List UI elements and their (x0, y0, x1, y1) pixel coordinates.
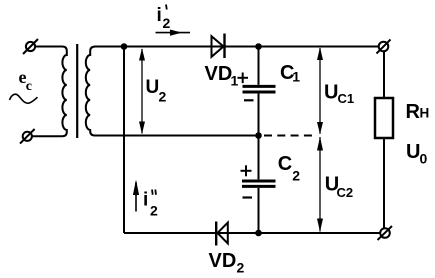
wire right rail lower (383, 138, 385, 228)
label UC2 (325, 174, 353, 201)
capacitor C1 minus mark (244, 99, 254, 101)
svg-text:C2: C2 (337, 185, 354, 200)
wire top rail (95, 46, 380, 48)
svg-text:0: 0 (420, 151, 428, 167)
svg-text:1: 1 (292, 69, 300, 85)
wire bottom rail (124, 232, 380, 234)
input terminal bottom-left (20, 129, 35, 144)
label RH (406, 101, 430, 123)
capacitor C1 lead top (258, 47, 260, 85)
capacitor C1 lead bottom (258, 94, 260, 136)
svg-text:i: i (143, 190, 148, 211)
dimension arrow UC1 (317, 47, 323, 134)
input terminal top-left (23, 39, 38, 54)
source label e_c (19, 67, 33, 94)
svg-text:C1: C1 (338, 91, 355, 106)
label i2'' (143, 190, 158, 219)
resistor RH (375, 98, 393, 138)
svg-text:c: c (26, 79, 32, 94)
current arrow i2' (156, 30, 191, 36)
output terminal top-right (377, 40, 391, 54)
diode VD1 (212, 34, 225, 59)
svg-text:2: 2 (237, 260, 245, 276)
capacitor C2 lead top (258, 136, 260, 180)
capacitor C2 lead bottom (258, 188, 260, 233)
wire right rail upper (383, 51, 385, 98)
transformer core (76, 44, 78, 138)
node D junction dot (255, 230, 262, 237)
transformer T1 primary winding (32, 47, 67, 137)
label VD1 (205, 63, 239, 89)
capacitor C2 (242, 181, 276, 186)
wire left vertical branch (123, 47, 125, 234)
svg-text:1: 1 (231, 73, 239, 89)
label U2 (146, 77, 167, 105)
svg-text:VD: VD (205, 63, 233, 85)
transformer T1 secondary winding (86, 47, 96, 136)
capacitor C1 (243, 86, 276, 92)
current arrow i2'' (133, 180, 139, 212)
svg-text:2: 2 (159, 89, 167, 105)
svg-text:U: U (146, 77, 160, 98)
source sine tilde (10, 94, 38, 103)
capacitor C2 plus mark (241, 165, 252, 176)
dimension arrow UC2 (317, 137, 323, 232)
capacitor C2 minus mark (243, 196, 253, 198)
label U0 (406, 141, 428, 167)
dimension arrow U2 (139, 48, 145, 134)
dashed reference line (264, 135, 313, 137)
node C junction dot (capacitor midpoint) (255, 132, 262, 139)
diode VD2 (216, 222, 228, 246)
svg-text:R: R (406, 101, 421, 123)
label C1 (280, 62, 300, 85)
svg-text:2: 2 (163, 15, 171, 31)
svg-text:2: 2 (150, 203, 158, 219)
node A junction dot (121, 43, 128, 50)
output terminal bottom-right (378, 226, 393, 240)
svg-text:U: U (406, 141, 420, 163)
svg-text:U: U (324, 82, 338, 104)
capacitor C1 plus mark (238, 73, 249, 84)
label C2 (278, 153, 301, 184)
node B junction dot (255, 43, 262, 50)
svg-text:Н: Н (420, 106, 430, 121)
label VD2 (209, 250, 245, 276)
label UC1 (324, 82, 354, 107)
label i2' (157, 5, 171, 32)
svg-text:i: i (157, 5, 162, 26)
wire secondary bottom to capacitor midpoint (94, 135, 259, 137)
svg-text:2: 2 (292, 168, 300, 184)
svg-text:C: C (278, 153, 292, 175)
svg-text:VD: VD (209, 250, 237, 272)
